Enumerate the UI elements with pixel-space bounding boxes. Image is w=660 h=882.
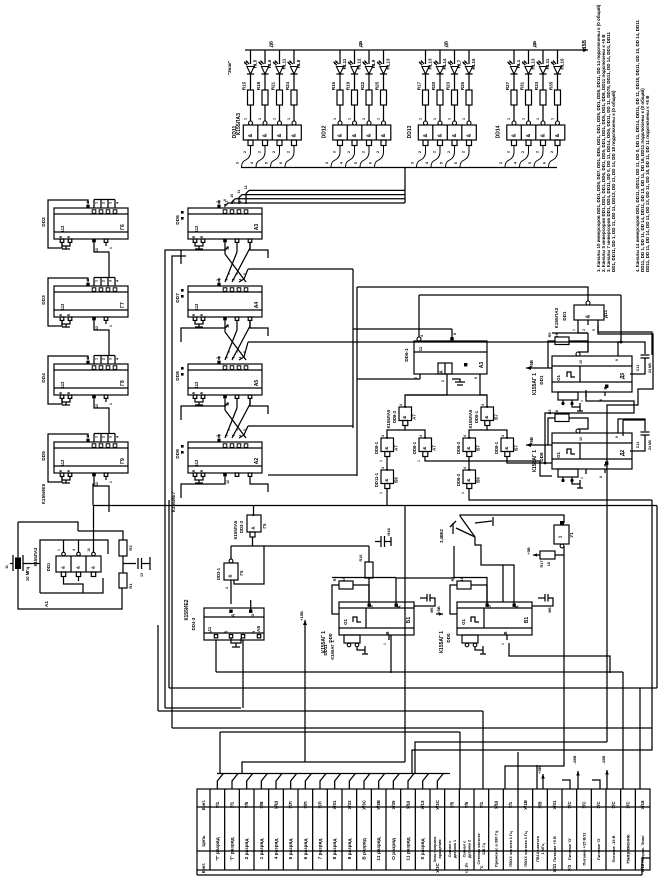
- wire stage coupling crossing: [236, 399, 238, 409]
- pin bubble D11: [586, 301, 590, 305]
- svg-text:А5: А5: [254, 380, 260, 387]
- svg-text:1: 1: [536, 118, 540, 120]
- gate DD8-3 (А7): [399, 407, 412, 421]
- svg-text:У/31: У/31: [332, 800, 337, 810]
- wire A3 outputs to gate trees: [405, 379, 447, 407]
- svg-text:К155ЛА5: К155ЛА5: [233, 520, 238, 539]
- svg-text:&: &: [541, 133, 547, 137]
- LED HL1: [510, 67, 517, 75]
- svg-text:5: 5: [592, 329, 596, 331]
- svg-text:113: 113: [194, 459, 199, 466]
- svg-text:Напряж. 'Знак': Напряж. 'Знак': [640, 835, 645, 863]
- resistor R18: [262, 90, 268, 105]
- svg-text:Цепь: Цепь: [201, 835, 206, 846]
- wire R16 down to B1 pin: [368, 578, 370, 604]
- svg-text:R24: R24: [285, 81, 290, 90]
- pin tab out DD13.3: [467, 140, 472, 146]
- wire channel 3 of DD13: [454, 50, 456, 64]
- wire vertical to connector col -15V: [622, 672, 624, 789]
- resistor R17: [423, 90, 429, 105]
- svg-text:1: 1: [244, 118, 248, 120]
- wire horizontal y672: [216, 671, 623, 673]
- svg-text:Конт.: Конт.: [201, 800, 206, 811]
- svg-text:HL8: HL8: [296, 59, 301, 68]
- svg-text:1: 1: [95, 436, 99, 438]
- svg-text:12: 12: [95, 248, 99, 252]
- pin bubble DD11.0: [249, 121, 253, 125]
- pins below Б1: [344, 635, 360, 643]
- wire output bus: [241, 167, 557, 169]
- svg-text:&: &: [526, 133, 532, 137]
- svg-text:1: 1: [417, 460, 421, 462]
- ground В1: [482, 646, 484, 654]
- svg-text:1: 1: [235, 429, 239, 431]
- wire h475 west from trunk: [268, 474, 357, 476]
- LED HL11: [539, 67, 546, 75]
- svg-text:G1: G1: [556, 375, 561, 381]
- svg-text:1: 1: [258, 118, 262, 120]
- svg-text:ДБ: ДБ: [444, 40, 449, 47]
- IC DD14 inverter row: [507, 125, 565, 140]
- svg-text:У/1В: У/1В: [523, 799, 528, 810]
- wire DD13.2 output to bus: [446, 146, 455, 168]
- svg-text:4 разряд: 4 разряд: [274, 839, 280, 860]
- svg-text:6: 6: [369, 162, 373, 164]
- wire feedback loop Г6: [48, 200, 88, 248]
- svg-text:Гс: Гс: [479, 865, 484, 870]
- wire DD3-1 side loop: [234, 546, 264, 584]
- svg-text:ПВ1Х частота 1 Гц: ПВ1Х частота 1 Гц: [508, 831, 513, 867]
- resistor R17: [540, 551, 555, 559]
- svg-text:5: 5: [265, 162, 269, 164]
- svg-text:&: &: [381, 133, 387, 137]
- pin bubble DD11.3: [292, 121, 296, 125]
- wire resistor R27 to gate: [513, 105, 515, 121]
- svg-text:У/С: У/С: [567, 801, 572, 809]
- svg-text:24 М6: 24 М6: [648, 440, 652, 450]
- svg-text:У/18: У/18: [640, 863, 645, 872]
- svg-text:А7: А7: [412, 414, 417, 420]
- wire transistor emitter to col: [505, 546, 564, 789]
- pins top В1: [486, 604, 489, 607]
- svg-text:HL6: HL6: [267, 59, 272, 68]
- svg-text:1: 1: [218, 200, 222, 202]
- svg-text:1 разряд: 1 разряд: [259, 839, 265, 860]
- pin tab out DD11.3: [292, 140, 297, 146]
- svg-text:11 разряд: 11 разряд: [406, 837, 412, 860]
- resistor R21: [277, 90, 283, 105]
- wire horizontal y732: [220, 731, 460, 733]
- svg-text:У/13: У/13: [420, 800, 425, 810]
- svg-text:М6: М6: [548, 607, 552, 612]
- svg-text:4: 4: [399, 404, 403, 406]
- svg-text:А7: А7: [432, 445, 437, 451]
- pin bubble Д5 pin10: [576, 352, 580, 356]
- wire DD14.0 output to bus: [505, 146, 514, 168]
- svg-text:1: 1: [287, 118, 291, 120]
- LED HL11: [336, 67, 343, 75]
- IC DD4-3 block A8: [204, 608, 264, 640]
- svg-text:К155АГ 1: К155АГ 1: [532, 450, 538, 472]
- svg-text:10: 10: [230, 194, 234, 198]
- svg-text:ДБ: ДБ: [532, 40, 537, 47]
- svg-text:2: 2: [272, 151, 276, 153]
- svg-text:1: 1: [501, 643, 505, 645]
- svg-text:9: 9: [615, 359, 619, 361]
- svg-text:3: 3: [109, 202, 113, 204]
- resistor R3 osc: [119, 540, 127, 556]
- svg-text:2: 2: [333, 151, 337, 153]
- wire DD12.0 output to bus: [331, 146, 340, 168]
- capacitor C В1: [538, 597, 545, 599]
- wire B7 output into D2: [545, 462, 552, 464]
- svg-text:Б7: Б7: [476, 445, 481, 451]
- svg-text:DD8-1: DD8-1: [494, 441, 499, 454]
- svg-text:Н18: Н18: [386, 528, 391, 536]
- gate DD3-3 (G5): [247, 515, 261, 532]
- svg-text:У/3С: У/3С: [435, 863, 440, 872]
- resistor R26: [466, 90, 472, 105]
- svg-text:2: 2: [258, 151, 262, 153]
- svg-text:R5: R5: [548, 333, 552, 338]
- svg-text:R19: R19: [346, 81, 351, 90]
- svg-text:2: 2: [102, 436, 106, 438]
- pin out В1: [506, 635, 508, 640]
- LED HL13: [422, 67, 429, 75]
- svg-text:G1: G1: [461, 619, 466, 625]
- ground tick А2: [198, 480, 200, 483]
- LED HL5: [247, 67, 254, 75]
- power -15V arrow col b: [606, 770, 608, 789]
- wire LED to resistor R19: [354, 74, 356, 90]
- svg-text:DD3-3: DD3-3: [239, 520, 244, 533]
- ground tick А5: [198, 402, 200, 405]
- wire channel 2 of DD12: [354, 50, 356, 64]
- wire vertical x460 to table: [459, 732, 461, 789]
- svg-text:1: 1: [461, 460, 465, 462]
- svg-text:&: &: [251, 526, 257, 530]
- svg-text:HL9: HL9: [371, 59, 376, 68]
- svg-text:2: 2: [102, 358, 106, 360]
- svg-text:Д5: Д5: [620, 373, 626, 380]
- svg-text:HL5: HL5: [253, 59, 258, 68]
- svg-text:DD8-3: DD8-3: [392, 410, 397, 423]
- resistor R16 vertical above B1: [365, 562, 373, 578]
- wire channel 1 of DD13: [425, 50, 427, 64]
- wire LED to resistor R20: [439, 74, 441, 90]
- wire h577 west: [332, 577, 396, 579]
- svg-text:Сигнал с: Сигнал с: [462, 841, 466, 858]
- svg-text:DD2: DD2: [41, 217, 47, 227]
- wire horizontal y688: [169, 687, 657, 689]
- svg-text:Б6: Б6: [476, 477, 481, 483]
- svg-text:Г5: Г5: [262, 523, 267, 528]
- power -15V arrow col: [577, 771, 579, 789]
- pin tab out DD12.1: [352, 140, 357, 146]
- wire channel 2 of DD14: [528, 50, 530, 64]
- svg-text:4: 4: [463, 467, 467, 469]
- wire R to pin Б1: [353, 585, 369, 604]
- bracket link cols 0V: [562, 780, 570, 789]
- svg-text:1: 1: [273, 118, 277, 120]
- svg-text:"Знак": "Знак": [227, 61, 232, 76]
- svg-text:11: 11: [418, 346, 423, 351]
- svg-text:3: 3: [109, 280, 113, 282]
- svg-text:8: 8: [599, 476, 603, 478]
- wire V1 block top feeds: [454, 578, 487, 604]
- IC DD1 monostable Д5: [552, 356, 632, 392]
- svg-text:У/Л: У/Л: [288, 801, 293, 808]
- pin tab out DD11.1: [263, 140, 268, 146]
- svg-text:G1: G1: [556, 452, 561, 458]
- svg-text:DD8-3: DD8-3: [456, 473, 461, 486]
- wire DD14.1 output to bus: [520, 146, 529, 168]
- ground tick Г6: [65, 246, 67, 249]
- pin tab out DD11.0: [248, 140, 253, 146]
- wire channel 3 of DD12: [368, 50, 370, 64]
- svg-text:R27: R27: [505, 81, 510, 90]
- svg-text:Д2: Д2: [620, 450, 626, 457]
- svg-text:У/3В: У/3В: [376, 799, 381, 810]
- pin tab out DD13.1: [438, 140, 443, 146]
- svg-text:&: &: [438, 133, 444, 137]
- resistor R22: [366, 90, 372, 105]
- svg-text:DD4-3: DD4-3: [191, 617, 196, 630]
- svg-text:Б1: Б1: [406, 617, 412, 624]
- svg-text:DD6-1: DD6-1: [404, 348, 409, 362]
- wire feedback loop Г7: [48, 278, 88, 326]
- svg-text:1: 1: [461, 492, 465, 494]
- wire bus A3 inputs: [225, 203, 228, 206]
- svg-text:3: 3: [109, 436, 113, 438]
- svg-text:Питание +15 В/11: Питание +15 В/11: [582, 832, 587, 866]
- svg-text:4: 4: [72, 549, 76, 551]
- svg-text:2: 2: [536, 151, 540, 153]
- svg-text:G1: G1: [343, 619, 348, 625]
- resistor R Б1: [339, 581, 353, 589]
- svg-text:1: 1: [551, 118, 555, 120]
- inner loop A1: [40, 540, 108, 593]
- pins bottom А5: [193, 395, 197, 398]
- svg-text:вращения: вращения: [438, 840, 442, 859]
- wire channel 1 of DD14: [513, 50, 515, 64]
- svg-text:О разряд: О разряд: [391, 838, 397, 860]
- wire A3 bottom west: [357, 378, 420, 380]
- svg-text:DD1: DD1: [562, 311, 567, 321]
- switch BK2 contact: [452, 523, 454, 534]
- svg-text:К155ЛА3: К155ЛА3: [554, 307, 560, 328]
- ground Б1: [364, 646, 366, 654]
- wire resistor R26 to gate: [468, 105, 470, 121]
- pin tab out DD14.3: [555, 140, 560, 146]
- svg-text:DD14: DD14: [496, 125, 502, 138]
- svg-text:1К: 1К: [342, 576, 346, 581]
- LED HL14: [436, 67, 443, 75]
- wire resistor R15 to gate: [250, 105, 252, 121]
- pin bubble DD13.2: [453, 121, 457, 125]
- svg-text:В: В: [503, 631, 508, 634]
- IC DD9 counter block А2: [188, 442, 262, 473]
- svg-text:10: 10: [87, 548, 91, 552]
- svg-text:R3: R3: [548, 410, 552, 415]
- wire LED to resistor R26: [468, 74, 470, 90]
- svg-text:1: 1: [419, 118, 423, 120]
- wire DD13.3 output to bus: [460, 146, 469, 168]
- svg-text:У/33: У/33: [347, 800, 352, 810]
- svg-text:ПВ1Х частота: ПВ1Х частота: [536, 835, 540, 861]
- wire trunk from bus down to A3 inputs: [404, 168, 406, 204]
- svg-text:1К: 1К: [555, 332, 559, 337]
- svg-text:2: 2: [347, 151, 351, 153]
- svg-text:Питание 'О': Питание 'О': [567, 838, 572, 860]
- resistor R23: [452, 90, 458, 105]
- wire channel 4 of DD11: [293, 50, 295, 64]
- wire vertical trunk left column: [165, 250, 181, 708]
- pin bubble DD14.3: [556, 121, 560, 125]
- pin bubble DD13.0: [424, 121, 428, 125]
- IC DD8 monostable Д2: [552, 433, 632, 469]
- wire col feed x537: [536, 765, 538, 789]
- wire vertical trunk left column 2: [172, 256, 186, 728]
- wire vertical x640 to table: [639, 688, 641, 789]
- pin out Б1: [388, 635, 390, 640]
- svg-text:2: 2: [582, 329, 586, 331]
- pin bubble DD13.1: [438, 121, 442, 125]
- svg-text:'Т' разряд: 'Т' разряд: [215, 837, 221, 860]
- svg-text:HL13: HL13: [531, 58, 536, 70]
- svg-text:3,4ВК2: 3,4ВК2: [439, 528, 444, 542]
- svg-text:4: 4: [116, 436, 120, 438]
- svg-text:HL11: HL11: [282, 58, 287, 69]
- IC DD4 counter block Г8: [54, 364, 128, 395]
- svg-text:2: 2: [376, 151, 380, 153]
- svg-text:DD8: DD8: [539, 452, 544, 462]
- svg-text:HL13: HL13: [428, 58, 433, 70]
- svg-text:4: 4: [501, 435, 505, 437]
- svg-text:&: &: [228, 574, 234, 578]
- gate DD8-1 (А7): [381, 438, 394, 452]
- svg-text:1: 1: [57, 549, 61, 551]
- pin tab out DD12.2: [367, 140, 372, 146]
- IC DD13 inverter row: [418, 125, 476, 140]
- pins top Б1: [368, 604, 371, 607]
- wire col feed x518: [517, 752, 519, 789]
- svg-text:12: 12: [226, 480, 230, 484]
- svg-text:9 разряд: 9 разряд: [347, 839, 353, 860]
- wire DD14.3 output to bus: [549, 146, 558, 168]
- svg-text:DD7: DD7: [175, 293, 181, 303]
- wire DD11.1 output to bus: [256, 146, 265, 168]
- wire h295 bus: [419, 294, 621, 296]
- svg-text:R35: R35: [549, 81, 554, 90]
- wire A7 tree: [387, 426, 405, 439]
- svg-text:113: 113: [60, 225, 65, 232]
- resistor R19: [352, 90, 358, 105]
- svg-text:У/35: У/35: [391, 800, 396, 810]
- svg-text:М6: М6: [430, 607, 434, 612]
- resistor R31: [526, 90, 532, 105]
- svg-text:Ю: Ю: [251, 613, 255, 617]
- capacitor C Д2 timing loop: [617, 429, 619, 433]
- svg-text:&: &: [586, 314, 592, 318]
- svg-text:У/С: У/С: [626, 801, 631, 809]
- wire B7 tree: [469, 426, 487, 439]
- svg-text:К155АГ 1: К155АГ 1: [321, 631, 327, 653]
- svg-text:1: 1: [507, 118, 511, 120]
- svg-text:+15В: +15В: [582, 40, 588, 52]
- wire R3 left to +5V rail: [548, 418, 555, 445]
- svg-text:&: &: [338, 133, 344, 137]
- svg-text:У/В: У/В: [259, 801, 264, 809]
- wire R to pin В1: [471, 585, 487, 604]
- svg-text:Г5: Г5: [239, 570, 244, 575]
- svg-text:R33: R33: [534, 81, 539, 90]
- svg-text:Б6: Б6: [394, 477, 399, 483]
- IC DD6-1 block A3: [414, 341, 487, 374]
- svg-text:С11: С11: [636, 365, 640, 371]
- svg-text:А3: А3: [479, 362, 485, 369]
- wire channel 1 of DD11: [250, 50, 252, 64]
- wire channel 4 of DD12: [383, 50, 385, 64]
- svg-text:10: 10: [579, 437, 583, 441]
- wire resistor R17 to gate: [425, 105, 427, 121]
- transistor module V1: [554, 525, 569, 544]
- power +5V arrow between B1 V1: [436, 613, 443, 615]
- svg-text:2: 2: [287, 151, 291, 153]
- wire DD13.0 output to bus: [417, 146, 426, 168]
- svg-text:13: 13: [140, 573, 144, 577]
- svg-text:Сигнал с: Сигнал с: [448, 841, 452, 858]
- wire D11 out east down: [598, 325, 652, 355]
- svg-text:HL14: HL14: [442, 58, 447, 70]
- connector outer border bottom: [197, 874, 642, 876]
- wire LED to resistor R22: [368, 74, 370, 90]
- wire D11 out left down: [578, 325, 588, 333]
- svg-text:У/1: У/1: [215, 801, 220, 808]
- svg-text:&: &: [555, 133, 561, 137]
- wire channel 2 of DD13: [439, 50, 441, 64]
- svg-text:1: 1: [379, 492, 383, 494]
- gate DD8-1 (А7): [419, 438, 432, 452]
- pins bottom А4: [193, 317, 197, 320]
- svg-text:У/П: У/П: [303, 801, 308, 808]
- svg-text:2: 2: [418, 151, 422, 153]
- resistor R33: [540, 90, 546, 105]
- pin tab out DD13.0: [423, 140, 428, 146]
- svg-text:HL7: HL7: [457, 59, 462, 68]
- capacitor H18 area: [380, 536, 382, 547]
- ground tick Г8: [65, 402, 67, 405]
- IC DD7 counter block А4: [188, 286, 262, 317]
- ground tick Г9: [65, 480, 67, 483]
- svg-text:У/В: У/В: [538, 801, 543, 809]
- wire channel 2 of DD11: [264, 50, 266, 64]
- svg-text:К155ИЕ5: К155ИЕ5: [41, 484, 47, 505]
- svg-text:DD4: DD4: [41, 373, 47, 383]
- wire horizontal y728: [172, 727, 652, 729]
- IC DD0 monostable В1: [457, 602, 532, 635]
- svg-text:5 разряд: 5 разряд: [288, 839, 294, 860]
- svg-text:А4: А4: [254, 302, 260, 309]
- svg-text:У/5: У/5: [464, 801, 469, 808]
- wire LED to resistor R35: [557, 74, 559, 90]
- LED HL13: [525, 67, 532, 75]
- pins bottom Г7: [60, 317, 64, 320]
- svg-text:10: 10: [579, 360, 583, 364]
- LED HL15: [465, 67, 472, 75]
- svg-text:1: 1: [109, 481, 113, 483]
- wire LED to resistor R18: [264, 74, 266, 90]
